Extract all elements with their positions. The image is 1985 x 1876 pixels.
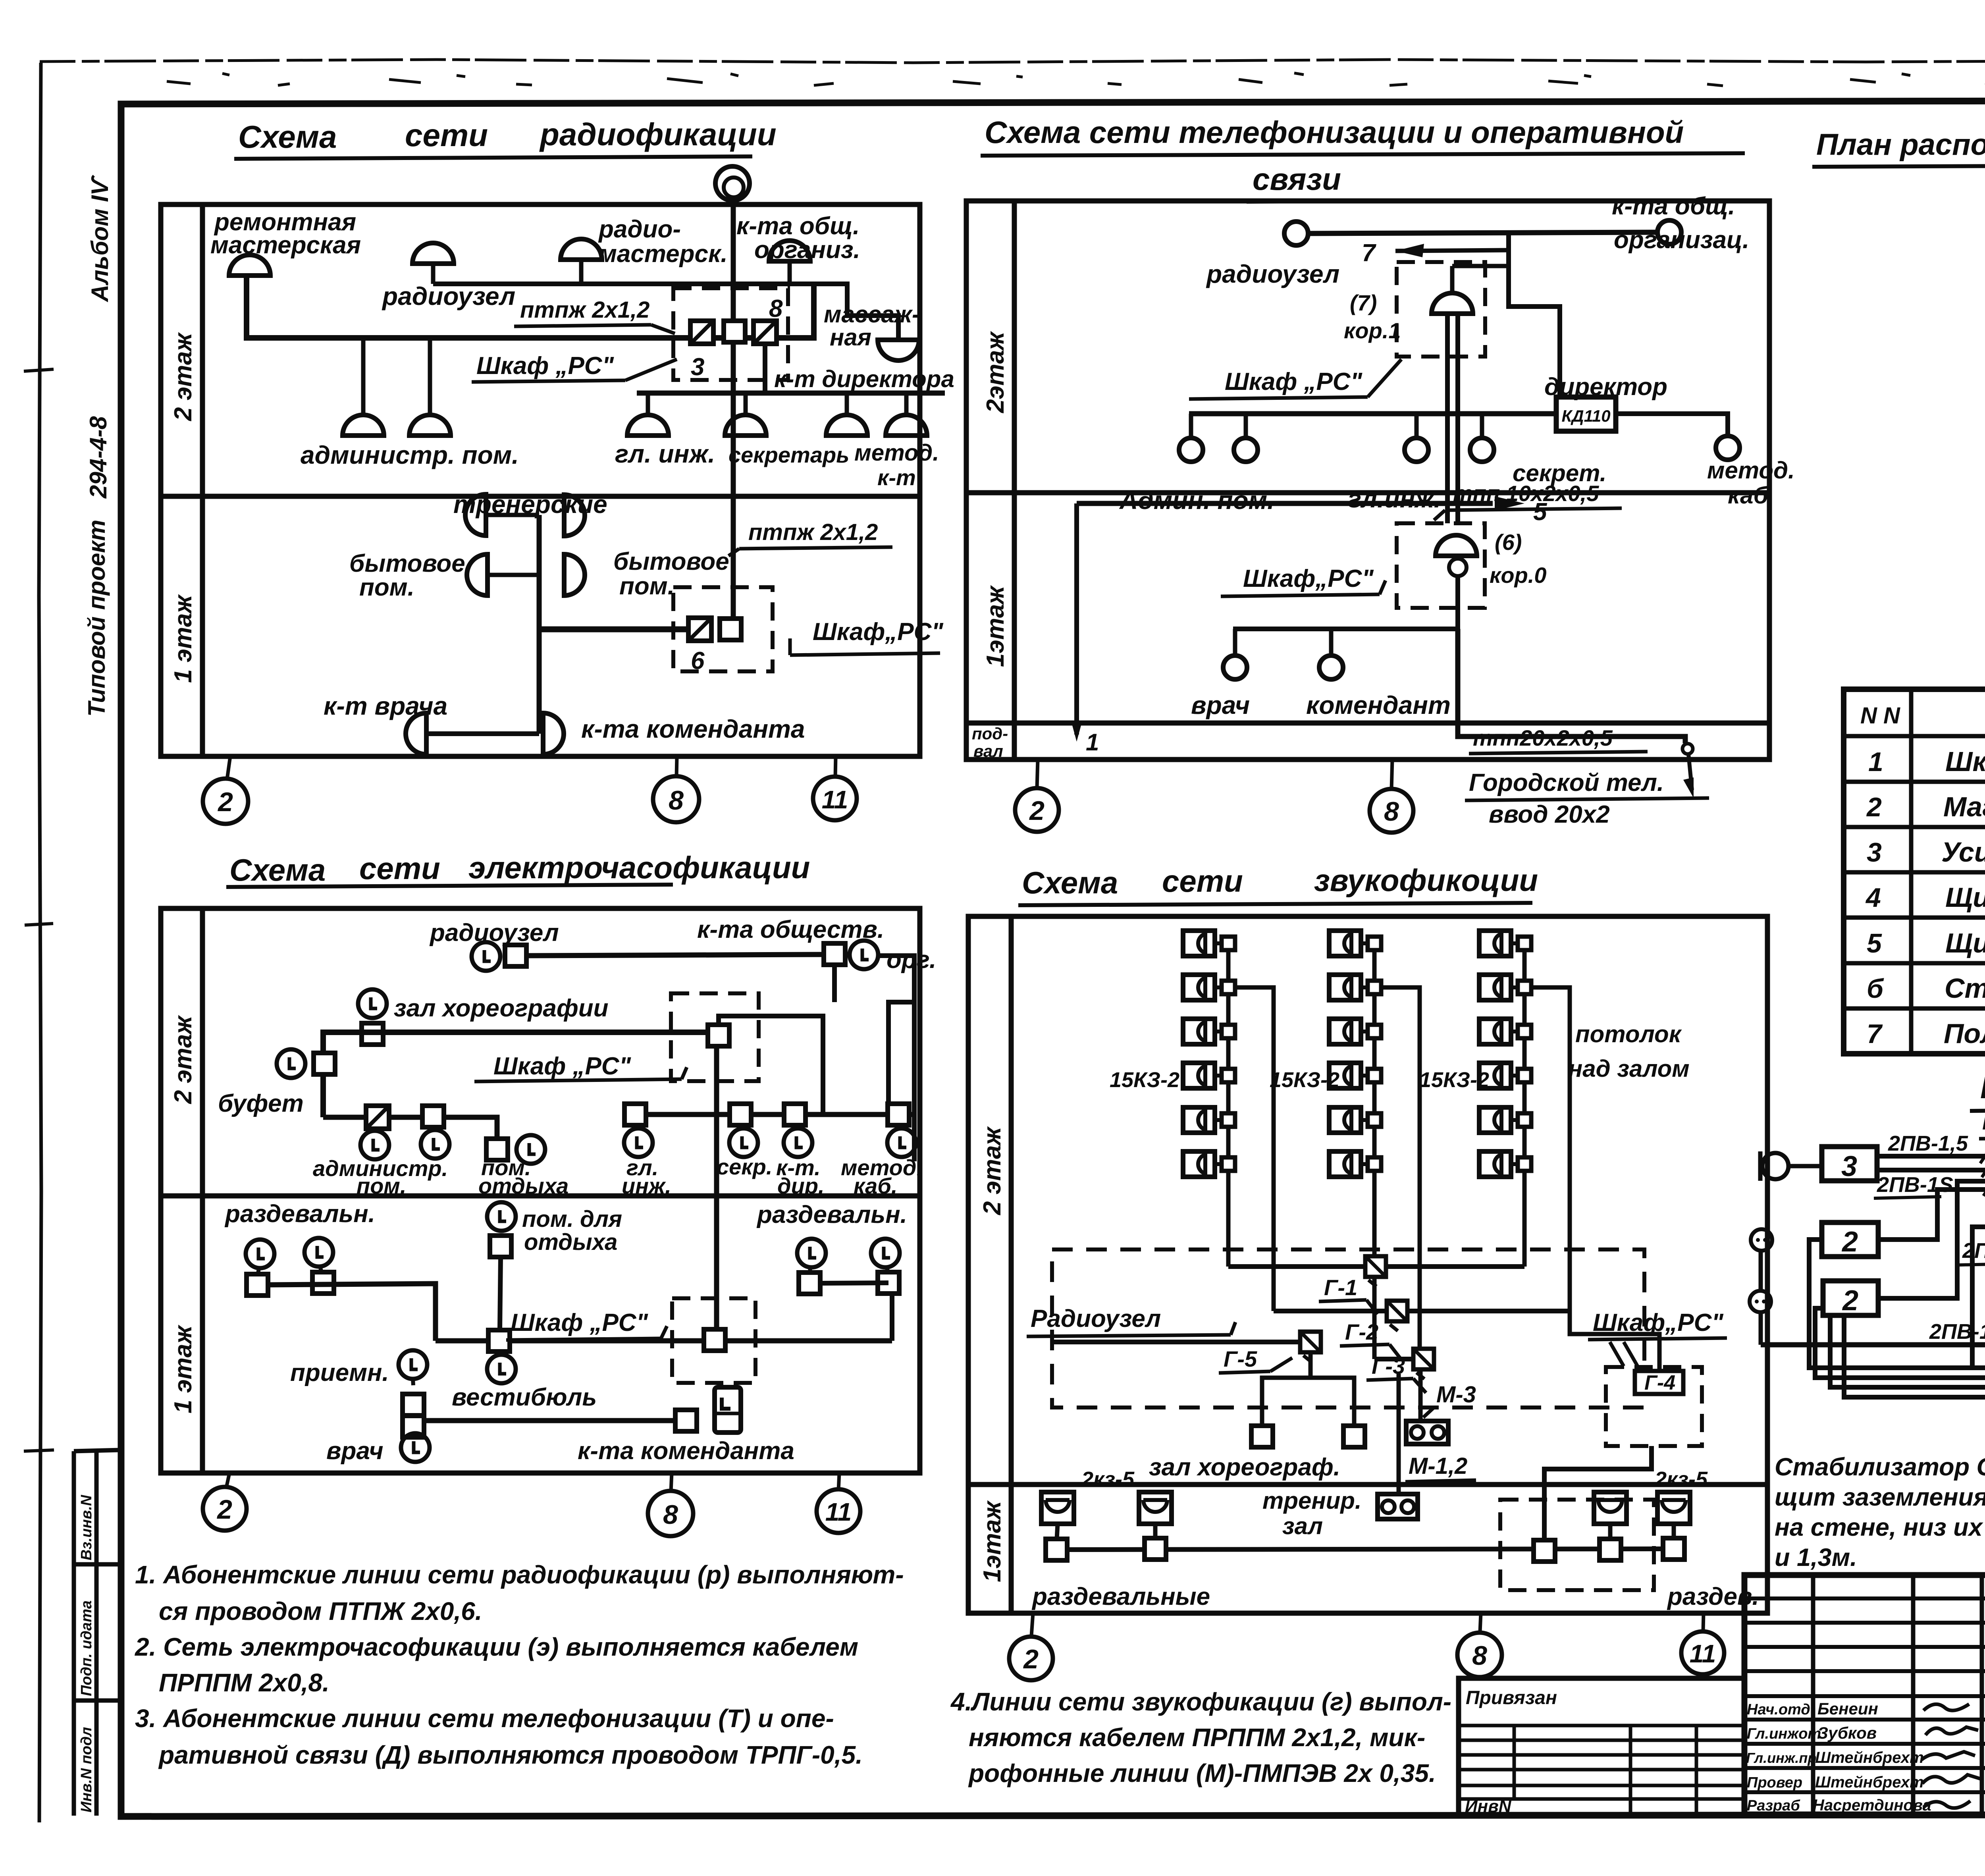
svg-text:буфет: буфет [218,1090,304,1117]
svg-text:Типовой проект: Типовой проект [83,520,110,717]
svg-text:Шкаф „РС": Шкаф „РС" [511,1309,649,1336]
svg-text:15КЗ-2: 15КЗ-2 [1419,1068,1489,1092]
svg-text:ративной связи (Д) выполняю: ративной связи (Д) выполняются проводом … [158,1741,863,1769]
svg-text:рофонные линии (М)-ПМПЭВ 2х 0: рофонные линии (М)-ПМПЭВ 2х 0,35. [968,1759,1436,1787]
svg-text:радиоузел: радиоузел [382,282,515,310]
column mark 11 [1703,1613,1704,1631]
cabinet RS dashed box 1fl [1397,523,1485,608]
svg-text:раздевальные: раздевальные [1031,1583,1210,1610]
svg-text:7: 7 [1867,1019,1883,1049]
box razdev r1 [799,1273,820,1294]
wire 2a to 1 [1878,1190,1985,1240]
svg-text:2: 2 [1029,796,1045,826]
clock priemn [399,1350,427,1379]
NOTES [135,1560,1451,1787]
box 2 lower tape recorder [1823,1281,1878,1315]
wall speaker L1 [1041,1492,1074,1524]
svg-text:Админ. пом.: Админ. пом. [1119,486,1274,515]
wire to city network [1688,754,1692,790]
drop and dome gl inzh [646,393,650,415]
box bufet [314,1053,335,1074]
svg-text:2кз-5: 2кз-5 [1654,1467,1708,1491]
gl inzh bus wire [635,1112,914,1117]
svg-text:Шкаф „РС": Шкаф „РС" [493,1053,632,1080]
svg-text:Схема: Схема [1022,865,1118,900]
director bus wire [637,391,945,396]
phone radiouzel [1284,222,1308,245]
box radiouzel [505,945,526,966]
drop to phone sekret [1480,414,1484,437]
svg-text:Шкаф „РС": Шкаф „РС" [1225,368,1363,395]
cabinet RS dashed box 1fl [672,1298,755,1383]
svg-text:ПРППМ 2х0,8.: ПРППМ 2х0,8. [159,1668,330,1697]
svg-text:3: 3 [1867,837,1882,868]
riser 7 arrow [1395,250,1509,251]
box vestibule [488,1330,510,1352]
svg-text:Полка с трансформаторами: Полка с трансформаторами [1944,1018,1985,1049]
clock gl inzh [636,1125,637,1129]
box razdev 2 [312,1272,334,1294]
1fl trunk wire [537,515,542,734]
box administr 1 [366,1106,389,1129]
svg-text:зал: зал [1282,1513,1323,1539]
svg-text:бытовое: бытовое [613,548,729,575]
svg-text:тпп20х2х0,5: тпп20х2х0,5 [1473,725,1613,750]
M-1,2 mic riser wire [1397,1374,1401,1494]
G4 riser to 1fl wire [1544,1446,1652,1540]
wall speaker R2 [1657,1492,1690,1524]
dome administr pom 1 [343,415,384,436]
junction G-5 [1300,1332,1321,1362]
clock vestibule [487,1355,516,1383]
svg-text:Стабилизатор С-0,75 устанавл: Стабилизатор С-0,75 устанавливается на п… [1775,1453,1985,1481]
speaker column 1 [1183,931,1235,956]
svg-text:1этаж: 1этаж [979,1500,1006,1582]
svg-text:метод.: метод. [1707,457,1795,484]
KD110 box [1556,397,1616,431]
G4 dashed box [1606,1367,1702,1446]
column mark 2 [1037,760,1038,788]
svg-text:2: 2 [1842,1285,1858,1317]
svg-text:4.Линии сети звукофикации (г: 4.Линии сети звукофикации (г) выпол- [950,1687,1451,1716]
wire KD110 to metod phone [1616,414,1728,436]
svg-text:каб.: каб. [854,1173,897,1198]
svg-text:Схема: Схема [238,119,337,154]
1fl left bus wire [268,1284,436,1341]
column 1 chain wire [1226,943,1231,1267]
svg-text:отдыха: отдыха [478,1173,569,1198]
box pom dlya otdykha [490,1236,511,1257]
220V bus wire to box 4 [1761,1342,1985,1348]
svg-text:Нач.отд: Нач.отд [1747,1701,1810,1718]
svg-text:птпж 2х1,2: птпж 2х1,2 [520,297,649,323]
svg-text:5: 5 [1533,498,1548,526]
svg-text:зал хореограф.: зал хореограф. [1149,1454,1340,1481]
svg-text:к-т врача: к-т врача [324,692,447,720]
svg-text:к-та коменданта: к-та коменданта [578,1437,794,1465]
box razdev 1 [247,1274,268,1296]
wire 2b to 1 [1878,1181,1985,1298]
svg-text:Штейнбрехт: Штейнбрехт [1815,1749,1924,1766]
svg-text:N N: N N [1860,703,1900,729]
svg-text:кор.1: кор.1 [1344,318,1401,343]
svg-text:Насретдинова: Насретдинова [1813,1797,1931,1814]
1fl dashed boundary [1500,1500,1654,1590]
floor label column divider [200,204,205,756]
fold mark ticks on left margin [24,369,54,1451]
double riser wires down to 1fl [1445,314,1450,523]
svg-text:и 1,3м.: и 1,3м. [1775,1544,1857,1571]
socket upper [1751,1229,1772,1251]
svg-text:к-та коменданта: к-та коменданта [581,715,805,743]
clock scheme outline box [161,908,920,1473]
svg-text:бытовое: бытовое [349,550,465,577]
svg-text:каб: каб [1728,482,1769,509]
svg-text:ИнвN: ИнвN [1465,1797,1512,1816]
svg-text:Шкаф„РС": Шкаф„РС" [1243,565,1374,592]
radiouzel dashed boundary [1052,1249,1644,1407]
basement divider line [966,721,1769,726]
svg-text:гл.инж.: гл.инж. [1348,484,1441,513]
svg-text:8: 8 [769,295,783,322]
ground wire a [1809,1240,1985,1368]
svg-text:11: 11 [822,785,848,814]
box razdev r2 [878,1272,899,1294]
2fl top bus wire [1308,232,1657,233]
clock pom dlya otdykha [487,1202,516,1231]
svg-text:радиофикации: радиофикации [539,117,777,152]
clock pom otdykha [516,1135,545,1164]
svg-text:пом.: пом. [619,573,675,600]
basement cable wire [1458,629,1685,743]
M-3 riser wire [1418,1369,1423,1421]
svg-text:врач: врач [1191,691,1250,719]
svg-text:М-1,2: М-1,2 [1409,1453,1467,1479]
svg-text:2этаж: 2этаж [982,331,1009,413]
drop and dome metod 2 [904,393,909,415]
clock sekr [741,1125,742,1129]
svg-text:2 этаж: 2 этаж [170,332,197,421]
cabinet box on bus [708,1025,729,1046]
drop to phone gl inzh [1415,414,1419,437]
clock metod kab [899,1125,900,1129]
svg-text:приемн.: приемн. [290,1359,389,1386]
svg-text:Щит питания ОЩВ-6: Щит питания ОЩВ-6 [1945,882,1985,913]
drop to phone komendant [1329,629,1334,654]
svg-text:294-4-8: 294-4-8 [85,416,112,499]
svg-text:ная: ная [830,324,871,351]
riser wire from loudspeaker down to 1st floor cabinet [731,201,736,619]
box k-ta obshchestv [824,943,845,965]
column 3 offset drop wire [1524,987,1570,1311]
column 2 offset drop wire [1374,987,1420,1349]
column mark 2 [226,1473,229,1488]
crossed box 6 in cabinet 1fl [688,618,711,641]
svg-text:1: 1 [1086,729,1099,756]
floor label column divider [200,908,205,1473]
svg-text:к-т директора: к-т директора [774,366,954,392]
svg-text:над залом: над залом [1568,1055,1690,1082]
floor divider line [968,1482,1767,1487]
svg-text:ввод 20х2: ввод 20х2 [1489,801,1610,828]
column mark 8 [1480,1613,1481,1632]
svg-text:11: 11 [1690,1639,1716,1668]
2fl phone bus wire [1189,411,1556,416]
drop wire to administr dome 2 [428,338,432,415]
2fl bus wire [323,1032,708,1117]
svg-text:под-: под- [972,724,1008,743]
svg-text:сети: сети [405,118,488,153]
svg-text:2ПВ-1,5: 2ПВ-1,5 [1888,1132,1968,1155]
svg-text:отдыха: отдыха [524,1229,617,1255]
svg-text:Разраб: Разраб [1747,1797,1800,1814]
vestibule bus wire [436,1338,892,1344]
svg-text:1: 1 [1868,747,1883,777]
svg-text:раздевальн.: раздевальн. [224,1200,375,1228]
G1 bus wire [1228,1264,1524,1269]
svg-text:3. Абонентские линии сети: 3. Абонентские линии сети телефонизации … [135,1704,834,1733]
svg-text:2: 2 [1023,1644,1039,1674]
dome radiomastersk with stem [579,260,584,284]
komendant dome [543,713,564,754]
svg-text:Шкаф „РС": Шкаф „РС" [476,352,615,380]
svg-text:3: 3 [691,353,704,381]
hall box 2 [1343,1426,1365,1447]
svg-text:Усилитель микрофонный УМТ.: Усилитель микрофонный УМТ. [1941,837,1985,868]
svg-text:1. Абонентские линии сети: 1. Абонентские линии сети радиофикации (… [135,1560,904,1589]
box in cabinet 1fl [720,619,741,640]
svg-text:зал хореографии: зал хореографии [394,995,609,1022]
svg-text:3: 3 [1841,1151,1857,1182]
svg-text:8: 8 [1384,796,1399,827]
drop wire to vestibule bus [500,1257,501,1330]
svg-text:кор.0: кор.0 [1490,563,1547,588]
svg-text:связи: связи [1253,162,1341,197]
TITLE BLOCK [1459,1575,1985,1817]
svg-text:2: 2 [216,1494,232,1525]
svg-text:15КЗ-2: 15КЗ-2 [1270,1068,1339,1092]
drop and dome metod 1 [845,393,849,415]
speaker column 3 [1479,931,1531,956]
svg-text:7: 7 [1362,239,1376,267]
stamp left rows [1744,1598,1985,1792]
bytovoe left dome with wire [488,573,539,577]
svg-text:вестибюль: вестибюль [452,1384,597,1411]
floor divider line [966,490,1769,496]
wire between sockets [1759,1251,1763,1291]
svg-text:Штейнбрехт: Штейнбрехт [1815,1774,1924,1791]
microphone socket box M-1,2 [1406,1421,1448,1444]
svg-text:Шкаф„РС": Шкаф„РС" [813,618,944,646]
cabinet RS dashed box 1fl [673,587,773,671]
hall box 1 [1251,1426,1273,1447]
phone k-ta obshch [1657,220,1681,244]
drop to phone admin 2 [1244,414,1248,437]
svg-text:2кз-5: 2кз-5 [1081,1467,1135,1491]
svg-text:8: 8 [1472,1641,1487,1671]
svg-text:радио-: радио- [598,216,681,243]
komendant clock device [715,1387,741,1433]
ground wire d [1844,1315,1985,1397]
right riser wire [890,1294,894,1341]
svg-text:2. Сеть электрочасофикации (э: 2. Сеть электрочасофикации (э) выполняет… [135,1633,858,1661]
svg-text:Схема сети телефонизации и: Схема сети телефонизации и оперативной [985,115,1684,150]
svg-text:8: 8 [663,1500,678,1530]
clock razdev r1 [797,1239,826,1267]
svg-text:звукофикоции: звукофикоции [1314,863,1538,898]
svg-text:потолок: потолок [1575,1021,1682,1047]
trener right dome with wire [564,495,585,536]
svg-text:11: 11 [825,1498,852,1526]
box zal khoreografii [362,1023,383,1045]
left riser wire down [1074,503,1079,735]
2fl main bus wire [247,276,814,338]
crossed box 8 in cabinet [754,321,777,344]
svg-text:2 этаж: 2 этаж [979,1126,1006,1215]
svg-text:Привязан: Привязан [1466,1687,1557,1708]
junction G-2 [1387,1301,1407,1331]
box in cabinet [724,321,745,342]
wire 3 to 1 upper [1877,1154,1985,1159]
1fl bus wire with arrow 5 [1077,501,1493,506]
column mark 2 [227,756,230,779]
cabinet RS dashed box [671,993,759,1081]
cabinet RS dashed box 2fl [673,288,788,380]
strip cell divider 2 [74,1699,121,1703]
svg-text:к-та общ.: к-та общ. [1612,193,1735,220]
svg-text:2: 2 [1841,1226,1858,1258]
svg-text:2: 2 [217,787,233,817]
outer page edge left line [39,63,41,1822]
right bus wire [820,1283,888,1283]
svg-text:Городской тел.: Городской тел. [1469,769,1664,796]
svg-text:Зубков: Зубков [1817,1724,1877,1742]
svg-text:орг.: орг. [887,946,936,974]
bus junction box [1534,1540,1555,1562]
svg-text:организац.: организац. [1614,226,1749,254]
svg-text:врач: врач [326,1437,384,1465]
svg-text:метод.: метод. [854,440,939,466]
svg-text:раздевальн.: раздевальн. [756,1201,907,1228]
box k-t dir [784,1104,806,1125]
city entry circle [1682,744,1693,754]
svg-text:Щит заземления ЩЗ-П-2: Щит заземления ЩЗ-П-2 [1945,927,1985,958]
svg-text:2: 2 [1866,792,1882,822]
box pom otdykha [486,1139,508,1160]
svg-text:секр.: секр. [717,1154,772,1179]
stub wire from box down [832,965,837,1002]
phone scheme outline box [966,201,1769,760]
svg-text:Г-1: Г-1 [1324,1275,1357,1300]
svg-text:Г-2: Г-2 [1345,1319,1378,1344]
G3 bus wire [1374,1357,1413,1361]
clock radiouzel [472,942,500,971]
CLOCK SCHEME [161,850,936,1536]
drop wire to administr dome 1 [361,338,366,415]
administr bus wire [323,1117,497,1139]
strip outer lines [72,1451,76,1816]
floor label column divider [1012,201,1017,760]
box 3 amplifier [1822,1147,1877,1181]
speaker column 2 [1329,931,1381,956]
privyazan block [1459,1678,1744,1814]
svg-text:мастерская: мастерская [210,231,361,259]
NOTES [0,0,0,0]
riser from cabinet to 1fl [714,1046,719,1330]
svg-text:пом.: пом. [359,574,414,601]
wire socket to 220 bus [1759,1312,1763,1345]
svg-text:2 этаж: 2 этаж [170,1014,197,1104]
1fl bus wire [1056,1549,1674,1550]
wires G5 to hall boxes [1262,1352,1310,1427]
svg-text:6: 6 [691,647,705,675]
LEFT MARGIN [74,174,121,1816]
svg-text:тренир.: тренир. [1262,1487,1362,1514]
box komendant [675,1410,697,1431]
clock razdev r2 [871,1239,900,1267]
wire pin left return [1972,1197,1985,1368]
svg-text:инж.: инж. [622,1173,671,1198]
svg-text:пом.: пом. [357,1173,406,1198]
column mark 11 [838,1473,839,1490]
svg-text:Инв.N подл: Инв.N подл [78,1727,95,1812]
svg-text:массаж-: массаж- [824,301,920,328]
svg-text:няются кабелем ПРППМ 2х1,2,: няются кабелем ПРППМ 2х1,2, мик- [969,1723,1425,1752]
drop and dome sekretar [744,393,748,415]
clock razdev 1 [246,1240,274,1268]
svg-text:1этаж: 1этаж [982,585,1009,667]
upper branch wire [433,284,898,340]
svg-text:15КЗ-2: 15КЗ-2 [1110,1068,1179,1092]
PHONE SCHEME [966,115,1795,833]
svg-text:КД110: КД110 [1561,407,1610,425]
svg-text:организ.: организ. [754,236,860,264]
svg-text:1 этаж: 1 этаж [170,1324,197,1413]
floor label column divider [1009,916,1014,1613]
circle kor 0 [1449,559,1467,576]
svg-text:Схема: Схема [229,852,326,887]
svg-text:электрочасофикации: электрочасофикации [468,850,810,885]
svg-text:секретарь: секретарь [728,442,849,467]
EXPLICATION TABLE [1844,627,1985,1054]
box gl inzh [624,1104,646,1125]
drop to phone vrach [1233,629,1237,654]
svg-text:Провер: Провер [1747,1774,1802,1791]
RADIO SCHEME [161,117,954,824]
svg-text:радиоузел: радиоузел [1206,260,1339,288]
vrach dome with wire [426,731,539,736]
svg-text:администр. пом.: администр. пом. [301,441,519,469]
clock bufet [277,1049,305,1078]
svg-text:гл. инж.: гл. инж. [615,440,715,468]
box sekr [730,1104,751,1125]
dome k-ta obshch organiz with stem [788,261,792,284]
feed wire to sekr bus [719,1016,823,1114]
svg-text:Альбом IѴ: Альбом IѴ [87,174,113,303]
box 2 upper tape recorder [1822,1222,1878,1257]
svg-text:Бенеин: Бенеин [1817,1699,1878,1718]
svg-text:птпж 2х1,2: птпж 2х1,2 [748,519,878,545]
SOUND SCHEME [968,863,1767,1680]
crossed box 3 in cabinet [690,321,713,344]
column mark 11 [835,756,836,777]
svg-text:сети: сети [359,851,440,886]
wire 3 to 1 lower [1877,1168,1985,1172]
svg-text:2ПВ-1,5: 2ПВ-1,5 [1929,1320,1985,1344]
table grid [1844,689,1985,1054]
svg-text:5: 5 [1867,928,1882,958]
svg-text:на стене, низ их от пола: на стене, низ их от пола соответственно … [1775,1514,1985,1541]
